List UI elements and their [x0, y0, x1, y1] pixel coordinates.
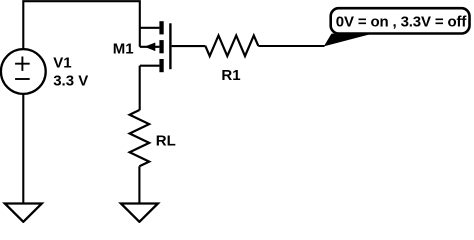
svg-text:3.3 V: 3.3 V	[53, 73, 88, 90]
callout box	[331, 8, 470, 33]
wire: V1 bottom to ground	[22, 94, 24, 203]
svg-text:V1: V1	[53, 54, 71, 71]
voltage source V1	[1, 49, 46, 94]
svg-text:RL: RL	[156, 133, 176, 150]
resistor R1	[205, 36, 258, 57]
wire: M1 drain down to RL	[139, 66, 141, 111]
wire: R1 to callout tail	[258, 45, 324, 47]
svg-text:0V = on , 3.3V = off: 0V = on , 3.3V = off	[336, 13, 468, 30]
ground (left)	[5, 204, 42, 222]
ground (right)	[121, 204, 158, 222]
transistor M1 (PMOS, 4-terminal)	[140, 21, 171, 72]
wire: V1 top to rail to M1 source column	[23, 1, 140, 49]
svg-text:M1: M1	[113, 40, 134, 57]
wire: RL to ground	[138, 166, 140, 203]
resistor RL	[130, 110, 150, 166]
callout tail (filled wedge)	[324, 34, 373, 47]
wire: M1 gate to R1	[172, 45, 206, 47]
svg-text:R1: R1	[221, 67, 240, 84]
